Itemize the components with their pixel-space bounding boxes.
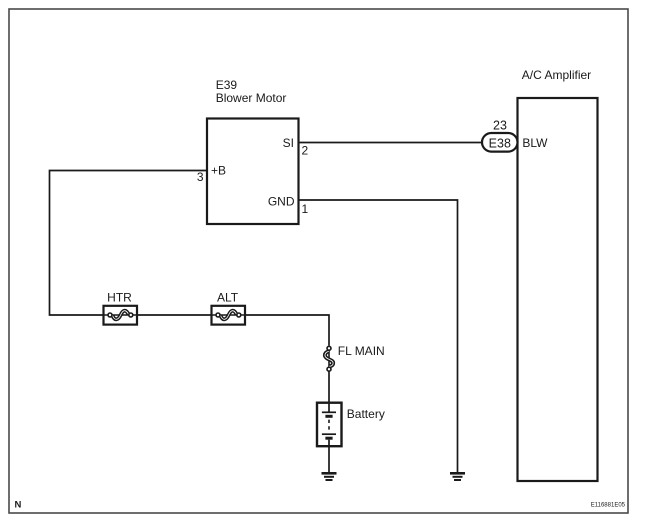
- svg-text:SI: SI: [283, 136, 294, 150]
- svg-text:HTR: HTR: [107, 291, 132, 305]
- svg-text:Blower Motor: Blower Motor: [216, 91, 287, 105]
- svg-text:FL MAIN: FL MAIN: [338, 344, 385, 358]
- ground (amplifier GND): [450, 473, 465, 480]
- wire FL MAIN to battery: [328, 372, 330, 404]
- svg-text:ALT: ALT: [217, 291, 239, 305]
- svg-text:1: 1: [302, 202, 309, 216]
- fusible link FL MAIN: [325, 344, 385, 371]
- svg-text:E38: E38: [489, 136, 511, 150]
- svg-text:2: 2: [302, 144, 309, 158]
- battery: [317, 403, 385, 447]
- wire HTR to ALT: [137, 314, 212, 316]
- svg-text:E116881E05: E116881E05: [591, 503, 626, 509]
- blower motor E39: [207, 78, 299, 224]
- svg-text:E39: E39: [216, 78, 238, 92]
- svg-text:3: 3: [197, 170, 204, 184]
- fuse ALT: [212, 291, 246, 325]
- wire SI (pin 2) to connector E38: [299, 142, 483, 144]
- fuse HTR: [104, 291, 138, 325]
- wire GND (pin 1) to ground: [299, 200, 458, 473]
- connector E38: [482, 133, 518, 152]
- svg-text:23: 23: [493, 119, 507, 133]
- svg-text:BLW: BLW: [522, 136, 548, 150]
- svg-text:N: N: [15, 500, 22, 511]
- svg-text:+B: +B: [211, 164, 226, 178]
- wire ALT to FL MAIN: [245, 315, 329, 346]
- wire +B (pin 3) left then down to HTR: [50, 171, 208, 316]
- A/C amplifier: [518, 68, 598, 481]
- svg-text:A/C Amplifier: A/C Amplifier: [522, 68, 591, 82]
- ground (battery): [322, 473, 337, 480]
- wire battery to ground: [328, 446, 330, 473]
- svg-text:Battery: Battery: [347, 407, 385, 421]
- svg-text:GND: GND: [268, 195, 295, 209]
